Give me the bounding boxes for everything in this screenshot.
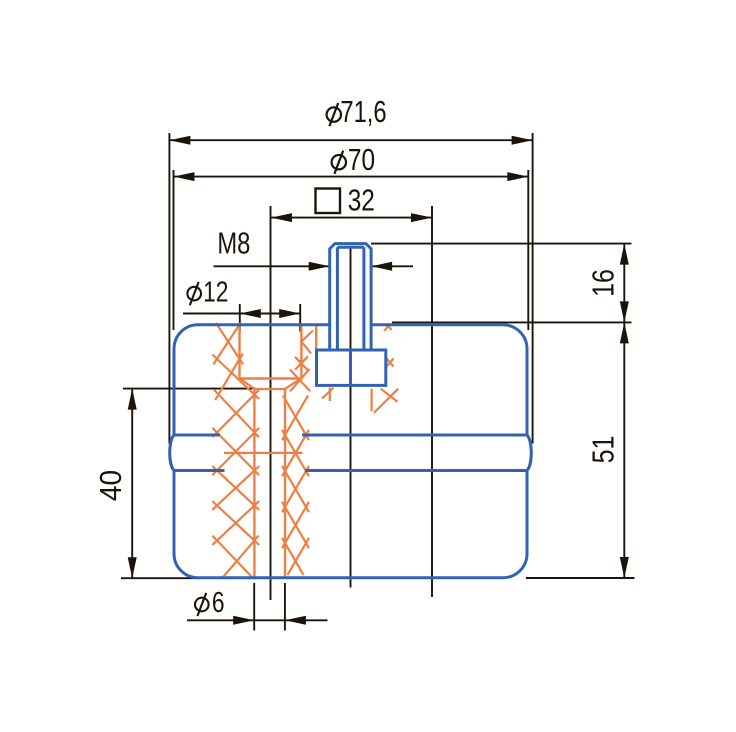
body groove upper line right segment: [302, 434, 527, 437]
svg-text:40: 40: [94, 470, 128, 501]
section groove bottom line: [224, 452, 303, 454]
extension line dia6 left: [253, 583, 255, 631]
section hatch right upper fragments: [301, 331, 313, 342]
section hatch left strip: [213, 323, 240, 365]
hatch fragment right of flange small x: [387, 359, 394, 367]
svg-text:70: 70: [348, 142, 375, 176]
square-32 right extension line: [431, 206, 433, 597]
section recess wall left of flange: [315, 326, 317, 349]
extension line dia71.6 left: [168, 133, 170, 444]
section tube dia6 left wall: [253, 389, 255, 577]
extension line body bottom right: [526, 577, 635, 579]
hatch fragment caret above flange right: [384, 326, 389, 331]
dimension line square32: [271, 217, 432, 219]
section tube dia6 right wall: [284, 389, 286, 577]
section bore dia12 right wall: [300, 326, 302, 379]
section hatch right strip: [283, 396, 309, 441]
label dia6: [195, 593, 209, 616]
hatch fragment below flange right X: [381, 389, 398, 402]
section bore seat: [240, 377, 302, 379]
M8 leader line right: [371, 265, 413, 267]
extension line dia70 right: [527, 170, 529, 330]
extension line dia12 left: [239, 304, 241, 332]
svg-text:M8: M8: [217, 226, 250, 261]
svg-text:51: 51: [586, 436, 620, 464]
dimension line 16: [623, 244, 625, 323]
flange middle edge: [349, 350, 352, 385]
extension line stud top right: [371, 243, 632, 245]
dimension line 40: [131, 389, 133, 579]
stud centerline: [350, 246, 352, 588]
body groove upper line left segment: [174, 434, 220, 437]
hatch fragment below flange left: [329, 388, 331, 402]
extension line body top right: [392, 321, 632, 323]
svg-text:16: 16: [586, 269, 620, 297]
label dia12: [187, 282, 201, 305]
dimension line dia12: [183, 313, 300, 315]
svg-text:32: 32: [348, 183, 375, 217]
extension line funnel step left: [123, 388, 256, 390]
extension line dia12 right: [299, 304, 301, 332]
extension line dia71.6 right: [532, 133, 534, 444]
dimension line dia70: [174, 176, 529, 178]
stud thread chamfer line: [337, 246, 364, 249]
svg-text:12: 12: [203, 277, 228, 308]
M8 leader line left: [214, 265, 330, 267]
stud thread root line left: [336, 247, 339, 350]
section seat chamfer right: [285, 379, 301, 390]
svg-text:6: 6: [212, 588, 225, 619]
label square32: [316, 189, 341, 214]
body groove lower line left segment: [174, 469, 225, 472]
threaded stud M8 outer outline: [330, 244, 371, 350]
dimension line 51: [623, 322, 625, 578]
label dia70: [332, 151, 346, 174]
extension line dia6 right: [284, 583, 286, 631]
rubber buffer body outline: [170, 325, 532, 578]
svg-text:71,6: 71,6: [340, 94, 386, 129]
section tube top edge: [254, 388, 285, 390]
stud thread root line right: [362, 247, 365, 350]
label dia71,6: [327, 103, 341, 126]
section seat chamfer left: [240, 379, 254, 390]
insert flange block: [317, 350, 386, 385]
centerline of mounting hole / square-32 left extension line: [270, 206, 272, 600]
dimension line dia71,6: [169, 139, 532, 141]
body groove lower line right segment: [305, 469, 527, 472]
section bore dia12 left wall: [238, 326, 240, 378]
extension line dia70 left: [173, 170, 175, 330]
dimension line dia6: [187, 619, 328, 621]
hatch fragment below flange right vertical: [371, 389, 373, 412]
extension line body bottom left: [121, 577, 197, 579]
